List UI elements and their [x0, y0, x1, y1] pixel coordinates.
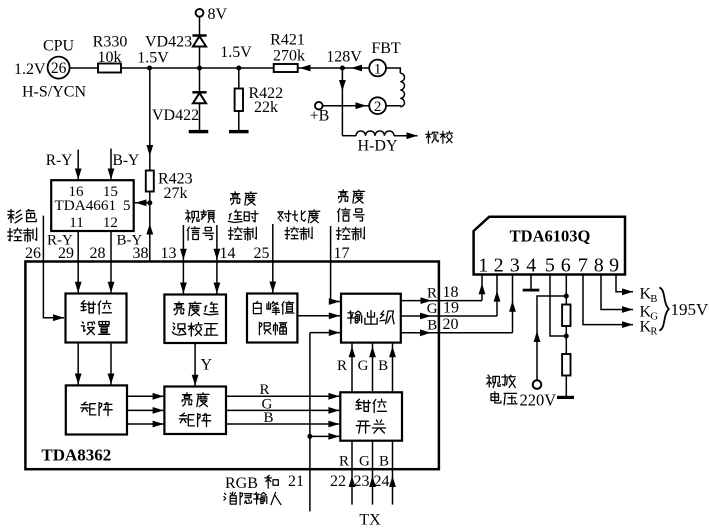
svg-text:29: 29	[58, 245, 74, 262]
wire +B to FBT2	[323, 105, 370, 107]
terminal +B	[315, 102, 323, 110]
pin6 stub	[565, 275, 567, 305]
node R422 junction	[236, 66, 241, 71]
wire 19 up to pin2	[496, 275, 498, 317]
wire pin13	[182, 225, 184, 260]
svg-text:11: 11	[69, 215, 83, 231]
wire lower resistor to ground	[565, 376, 567, 397]
wire between resistors	[565, 326, 567, 354]
svg-text:2: 2	[374, 99, 382, 115]
svg-text:19: 19	[443, 300, 459, 317]
box clamp switch	[340, 392, 402, 440]
svg-text:22: 22	[330, 473, 346, 490]
resistor divider lower	[562, 354, 570, 376]
svg-text:RGB: RGB	[225, 475, 258, 492]
svg-text:B: B	[378, 358, 388, 374]
wire pin21	[309, 333, 311, 512]
wire R421 to 128V node	[298, 67, 370, 69]
node pin21 branch	[307, 434, 312, 439]
CPU terminal circle 26	[48, 57, 70, 79]
wire pin21 to output stage	[310, 332, 340, 334]
svg-text:B: B	[427, 318, 437, 334]
svg-text:H-S/YCN: H-S/YCN	[22, 84, 86, 101]
svg-text:1: 1	[374, 61, 382, 77]
svg-text:5: 5	[545, 255, 555, 277]
node 128V	[340, 66, 345, 71]
wire 8V to VD423	[199, 17, 201, 36]
wire 1.5V down to R423	[149, 68, 151, 171]
svg-text:1.5V: 1.5V	[220, 44, 252, 61]
brace 195V	[659, 288, 669, 331]
ground divider	[557, 396, 574, 399]
svg-text:VD423: VD423	[145, 34, 192, 51]
svg-text:R: R	[650, 327, 657, 338]
label brightness signal ctrl	[339, 190, 348, 203]
wire pin8 to KG	[601, 275, 633, 310]
diode VD422	[192, 91, 206, 94]
wire 128V down	[341, 68, 343, 136]
IC TDA4661	[51, 180, 134, 231]
svg-text:TDA4661: TDA4661	[55, 197, 117, 214]
wire R out 18	[401, 300, 482, 302]
label video amp voltage	[487, 375, 500, 387]
wire VD423 to rail	[199, 47, 201, 69]
svg-text:5: 5	[123, 198, 131, 214]
svg-text:22k: 22k	[254, 99, 278, 116]
svg-text:Y: Y	[201, 357, 213, 374]
svg-text:TDA6103Q: TDA6103Q	[510, 227, 591, 246]
svg-text:28: 28	[90, 245, 106, 262]
wire CPU to R330	[70, 67, 98, 69]
FBT circle 2	[369, 97, 386, 114]
svg-text:B-Y: B-Y	[113, 152, 140, 169]
box matrix	[66, 385, 127, 434]
coil H-DY	[342, 135, 356, 137]
svg-text:23: 23	[354, 473, 370, 490]
box luma matrix	[164, 387, 226, 435]
wire R423 to node	[149, 192, 151, 203]
node pin6 220V	[564, 294, 569, 299]
svg-text:1.5V: 1.5V	[137, 50, 169, 67]
svg-text:TX: TX	[359, 512, 381, 528]
svg-text:20: 20	[443, 316, 459, 333]
pin4 stub and bar	[530, 275, 532, 290]
label color control	[8, 210, 22, 223]
box luma delay correction	[164, 295, 226, 344]
node divider mid	[564, 334, 569, 339]
svg-text:G: G	[358, 358, 369, 374]
FBT winding	[386, 68, 400, 73]
svg-text:TDA8362: TDA8362	[41, 446, 111, 465]
svg-text:10k: 10k	[98, 49, 122, 66]
wire pin26 to clamp	[43, 262, 64, 318]
wire to TDA4661 pin5	[134, 202, 150, 204]
svg-text:G: G	[359, 453, 370, 469]
wire pin26	[42, 216, 44, 262]
terminal 8V	[196, 9, 204, 17]
wire H-DY to pincushion	[394, 135, 418, 137]
wires RGB clamp switch to output	[351, 343, 353, 392]
svg-text:8: 8	[594, 255, 604, 277]
arrow pin28 into clamp	[108, 282, 115, 293]
wire pin9 to KB	[616, 275, 633, 292]
wire R422 to ground	[238, 111, 240, 130]
svg-text:R: R	[337, 358, 347, 374]
wire B out 20	[401, 332, 513, 334]
resistor R421	[274, 64, 298, 72]
svg-text:B: B	[650, 294, 657, 305]
wire clamp to matrix 1	[77, 343, 79, 385]
svg-text:270k: 270k	[273, 48, 305, 65]
wires matrix to luma matrix	[127, 395, 164, 397]
label brightness delay ctrl	[231, 192, 240, 205]
arrow B-Y into pin15	[110, 149, 112, 181]
svg-text:24: 24	[374, 473, 390, 490]
svg-text:B: B	[264, 410, 274, 426]
svg-text:38: 38	[133, 245, 149, 262]
FBT circle 1	[369, 60, 386, 77]
svg-text:R421: R421	[270, 32, 305, 49]
wire pin13 to luma delay	[182, 261, 184, 294]
svg-text:FBT: FBT	[371, 40, 401, 57]
svg-text:G: G	[650, 312, 658, 323]
svg-text:7: 7	[578, 255, 588, 277]
wire limiter to output	[297, 315, 340, 317]
wire Y	[194, 343, 196, 386]
ground VD422	[189, 130, 209, 133]
wire pin21 to clamp switch	[310, 435, 340, 437]
svg-text:128V: 128V	[326, 49, 362, 66]
svg-text:14: 14	[220, 245, 236, 262]
IC TDA6103Q outline	[474, 217, 625, 275]
svg-text:8V: 8V	[208, 6, 228, 23]
wire G out 19	[401, 315, 497, 317]
svg-text:26: 26	[25, 245, 41, 262]
wire pin14	[216, 225, 218, 260]
svg-text:27k: 27k	[164, 185, 188, 202]
arrow R-Y into pin16	[77, 150, 79, 181]
svg-text:R-Y: R-Y	[46, 152, 73, 169]
resistor R422	[235, 89, 243, 112]
resistor divider upper	[562, 305, 570, 327]
svg-text:R: R	[427, 286, 437, 302]
wire clamp to matrix 2	[110, 343, 112, 385]
diode VD423	[192, 34, 206, 37]
pin5 stub	[550, 275, 565, 337]
wire 18 up to pin1	[481, 275, 483, 301]
svg-text:2: 2	[494, 255, 504, 277]
wire pin17	[330, 226, 332, 302]
svg-text:CPU: CPU	[43, 38, 75, 55]
wire node to pin38	[149, 203, 151, 261]
box white peak limiter	[247, 294, 297, 343]
label contrast control	[278, 211, 291, 222]
node diode junction	[197, 66, 202, 71]
wire pin12 to pin28	[110, 231, 112, 293]
svg-text:1: 1	[478, 255, 488, 277]
svg-text:25: 25	[254, 245, 270, 262]
svg-text:220V: 220V	[520, 390, 557, 409]
wires RGB luma matrix to clamp switch	[226, 395, 340, 397]
svg-text:17: 17	[334, 245, 350, 262]
resistor R423	[146, 171, 154, 192]
label pincushion	[426, 131, 438, 143]
resistor R330	[98, 64, 121, 73]
svg-text:B: B	[379, 453, 389, 469]
node pin5 junction	[147, 200, 152, 205]
svg-text:VD422: VD422	[152, 107, 199, 124]
svg-text:13: 13	[161, 245, 177, 262]
wires pins 22 23 24	[351, 441, 353, 505]
node 1.5V-a	[147, 66, 152, 71]
svg-text:+B: +B	[310, 108, 330, 125]
box clamp setting	[66, 294, 127, 343]
wire rail to VD422	[199, 68, 201, 92]
svg-text:21: 21	[288, 473, 304, 490]
wire 220V to pin6 node	[537, 296, 565, 380]
svg-text:R330: R330	[93, 34, 128, 51]
wire pin11 to pin29	[77, 231, 79, 293]
wire VD422 to ground	[199, 103, 201, 130]
svg-text:12: 12	[103, 215, 118, 231]
label video signal	[186, 210, 199, 222]
wire pin7 to KR	[583, 275, 633, 325]
wire pin17 into output	[331, 301, 340, 303]
svg-text:G: G	[427, 301, 438, 317]
wire pin25	[272, 224, 274, 262]
svg-text:H-DY: H-DY	[358, 138, 398, 155]
svg-text:3: 3	[510, 255, 520, 277]
ground R422	[229, 130, 249, 133]
svg-text:6: 6	[561, 255, 571, 277]
terminal 220V	[533, 380, 542, 389]
svg-text:195V: 195V	[671, 300, 709, 319]
wire R330 to R421	[121, 67, 274, 69]
svg-text:1.2V: 1.2V	[14, 61, 46, 78]
IC TDA8362 outline	[25, 262, 439, 470]
svg-text:18: 18	[443, 284, 459, 301]
wire pin14 to luma delay	[216, 261, 218, 294]
wire pin25 to limiter	[272, 262, 274, 293]
svg-text:4: 4	[526, 255, 536, 277]
wire junction to R422	[238, 68, 240, 89]
wire 20 up to pin3	[512, 275, 514, 333]
svg-text:R: R	[339, 453, 349, 469]
arrow pin29 into clamp	[75, 282, 82, 293]
svg-text:26: 26	[51, 60, 67, 77]
box output stage	[341, 294, 401, 343]
svg-text:9: 9	[609, 255, 619, 277]
